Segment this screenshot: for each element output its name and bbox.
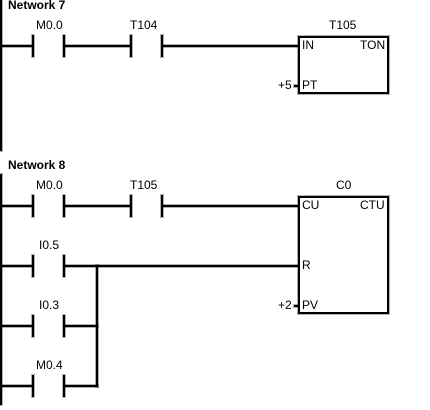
wire +5 to PT pin [294, 85, 298, 87]
pin IN [302, 39, 314, 51]
label M0.0 (network 8) [36, 179, 63, 191]
contact T105 [130, 195, 132, 217]
contact M0.0 (network 7) [32, 35, 34, 57]
wire T104 to timer box [163, 45, 298, 47]
label T105 contact [130, 179, 157, 191]
wire M0.4 to branch [65, 385, 98, 387]
wire rung1 rail to M0.0 [0, 45, 32, 47]
wire rung4 rail to I0.3 [0, 325, 32, 327]
pin PV [302, 299, 318, 311]
pin TON [360, 39, 385, 51]
label I0.5 [39, 239, 59, 251]
value +5 [278, 79, 292, 91]
counter box C0 CTU [298, 196, 389, 314]
wire rung5 rail to M0.4 [0, 385, 32, 387]
wire +2 to PV pin [294, 305, 298, 307]
contact M0.4 [32, 375, 34, 397]
label T104 [130, 19, 157, 31]
wire I0.5 to R pin [65, 265, 298, 267]
wire M0.0 to T104 [65, 45, 130, 47]
wire rung3 rail to I0.5 [0, 265, 32, 267]
pin R [302, 259, 311, 271]
value +2 [278, 299, 292, 311]
label I0.3 [39, 299, 59, 311]
wire I0.3 to branch [65, 325, 98, 327]
wire M0.0 to T105 contact [65, 205, 130, 207]
pin PT [302, 79, 317, 91]
label M0.0 (network 7) [36, 19, 63, 31]
network 8 title [8, 159, 65, 171]
pin CU [302, 199, 319, 211]
network 7 title [8, 0, 65, 11]
contact I0.3 [32, 315, 34, 337]
label T105 [329, 19, 356, 31]
contact T104 [130, 35, 132, 57]
left power rail (network 7) [0, 0, 2, 151]
left power rail (network 8) [0, 174, 2, 405]
contact M0.0 (network 8) [32, 195, 34, 217]
pin CTU [360, 199, 385, 211]
timer box T105 TON [298, 36, 389, 94]
label C0 [336, 179, 351, 191]
label M0.4 [36, 359, 63, 371]
branch vertical wire [96, 265, 98, 387]
contact I0.5 [32, 255, 34, 277]
wire T105 contact to counter box [163, 205, 298, 207]
wire rung2 rail to M0.0 [0, 205, 32, 207]
